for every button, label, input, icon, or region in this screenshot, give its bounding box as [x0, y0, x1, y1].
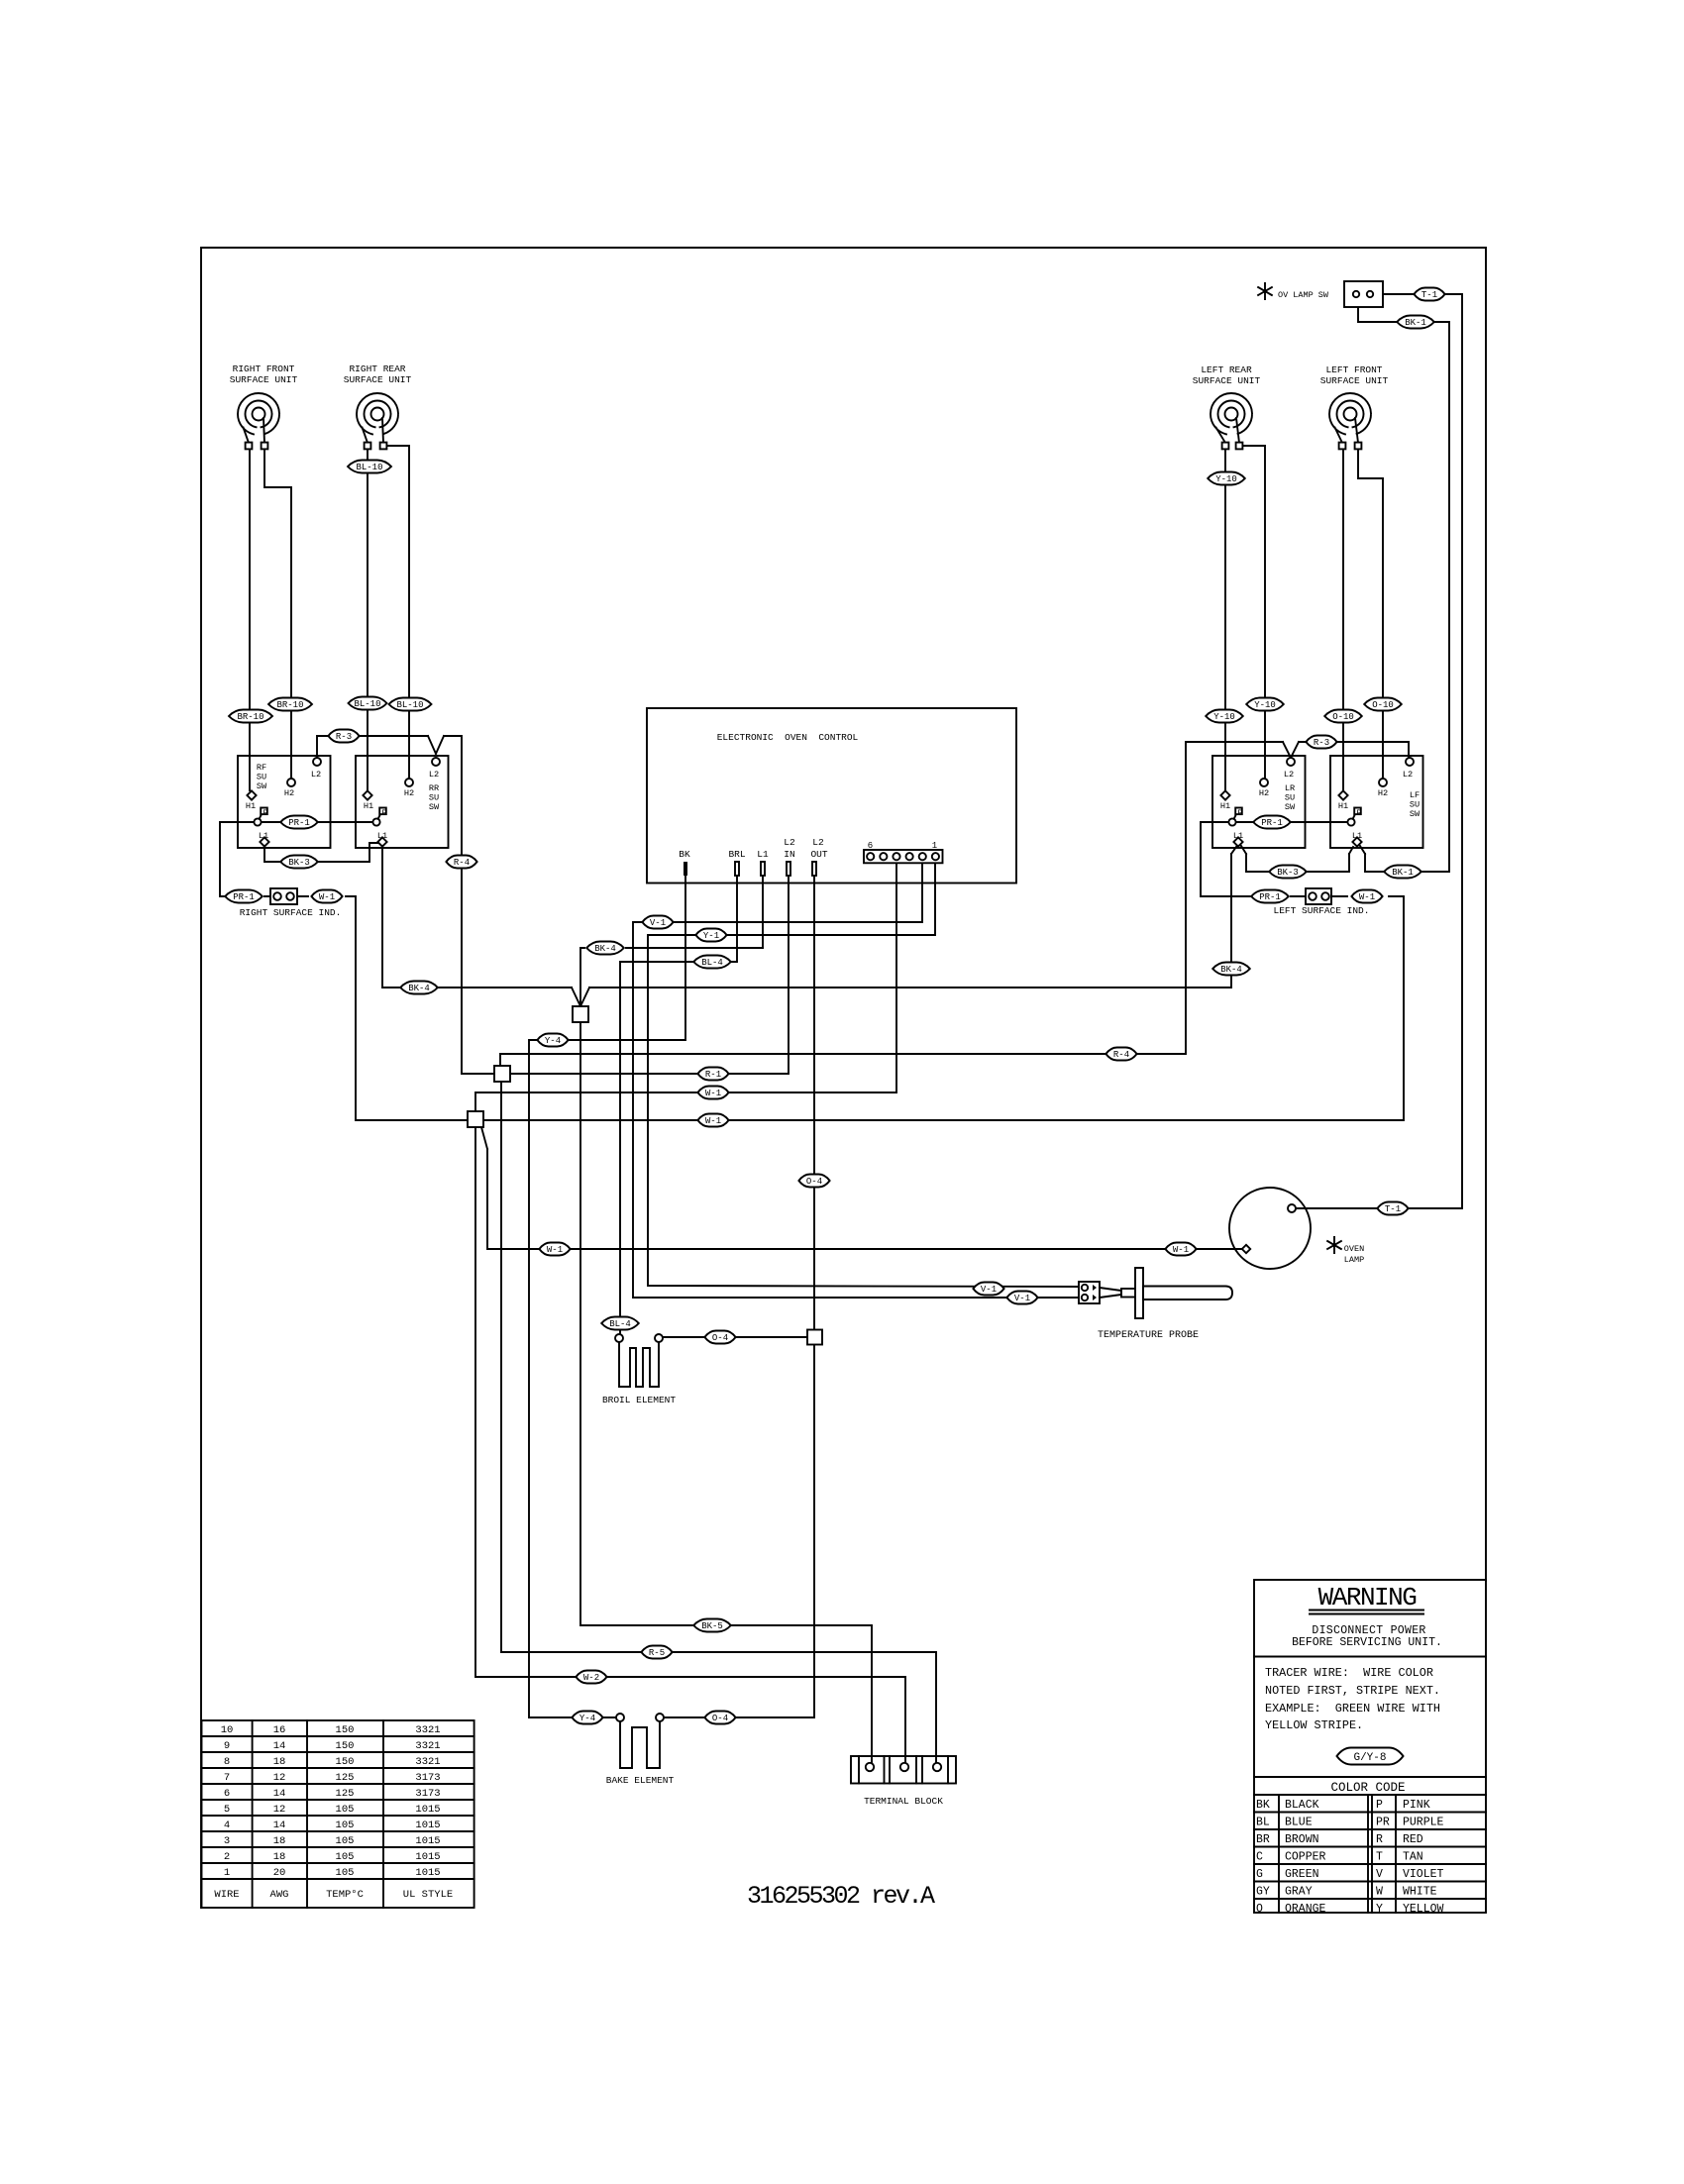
svg-text:W-1: W-1 [547, 1245, 563, 1255]
wire RF H1 wire BR-10 [249, 449, 251, 790]
svg-text:2: 2 [224, 1851, 230, 1863]
svg-text:T-1: T-1 [1421, 290, 1437, 300]
svg-text:105: 105 [336, 1851, 355, 1863]
svg-text:L1: L1 [259, 831, 268, 841]
broil element [615, 1334, 663, 1387]
svg-text:L2: L2 [784, 837, 795, 848]
RR switch pin H2 [405, 779, 413, 786]
svg-text:R-4: R-4 [1113, 1050, 1129, 1060]
svg-text:L2: L2 [429, 770, 439, 780]
surface unit coil LF [1329, 393, 1371, 449]
terminal block [851, 1756, 956, 1784]
wire label W-1 #4 [1165, 1243, 1196, 1256]
svg-text:BK: BK [1256, 1799, 1270, 1812]
svg-text:L1: L1 [1233, 831, 1243, 841]
wire label BK-1 lower [1384, 866, 1421, 879]
oven lamp circle [1229, 1188, 1311, 1269]
oven lamp pin T-1 [1288, 1204, 1296, 1212]
wire label BL-4 #1 [693, 956, 731, 969]
svg-text:Y-10: Y-10 [1213, 712, 1235, 722]
LF switch pin H1 [1338, 790, 1347, 799]
wire label BL-10 #1 [348, 461, 391, 473]
svg-text:O: O [1256, 1903, 1263, 1916]
wire PR-1 net right [1201, 822, 1347, 896]
svg-text:RR: RR [429, 783, 439, 793]
svg-text:105: 105 [336, 1804, 355, 1816]
svg-text:RIGHT FRONT: RIGHT FRONT [233, 364, 295, 374]
EOC connector circle 2 [919, 853, 926, 860]
svg-text:L2: L2 [1403, 770, 1413, 780]
svg-text:V-1: V-1 [981, 1285, 997, 1295]
RR pin labels [364, 770, 439, 841]
wire RF H2 wire BR-10 [264, 449, 291, 779]
svg-text:BAKE ELEMENT: BAKE ELEMENT [606, 1775, 675, 1786]
svg-text:1: 1 [932, 841, 937, 851]
terminal block pin 2 [900, 1763, 908, 1771]
wire label Y-4 #2 [572, 1712, 602, 1724]
svg-text:W-2: W-2 [583, 1673, 599, 1683]
EOC connector circle 3 [906, 853, 913, 860]
svg-text:NOTED FIRST, STRIPE NEXT.: NOTED FIRST, STRIPE NEXT. [1265, 1684, 1440, 1698]
RF switch pin P [254, 808, 266, 826]
svg-text:O-4: O-4 [712, 1714, 728, 1723]
svg-text:Y-4: Y-4 [545, 1036, 561, 1046]
svg-text:14: 14 [273, 1740, 286, 1752]
svg-text:SU: SU [429, 793, 439, 803]
svg-text:R: R [1376, 1833, 1383, 1846]
svg-text:1: 1 [224, 1867, 230, 1879]
svg-text:BK-4: BK-4 [594, 944, 616, 954]
wire label W-1 #3 [539, 1243, 570, 1256]
svg-text:BK-4: BK-4 [408, 984, 430, 993]
svg-text:BK-3: BK-3 [1277, 868, 1299, 878]
svg-text:BLUE: BLUE [1285, 1817, 1313, 1829]
wire label Y-10 #1 [1208, 472, 1245, 485]
svg-text:WIRE: WIRE [214, 1889, 239, 1901]
wire label R-1 [697, 1068, 728, 1081]
svg-text:SURFACE UNIT: SURFACE UNIT [344, 374, 412, 385]
wire label O-4 #2 [704, 1331, 735, 1344]
svg-text:Y-1: Y-1 [703, 931, 719, 941]
svg-text:G/Y-8: G/Y-8 [1353, 1752, 1386, 1764]
RF switch pin H1 [247, 790, 256, 799]
wire EOC L1 pin lead [762, 876, 764, 948]
LF SU SW designator [1410, 790, 1421, 819]
wire gauge table [202, 1720, 474, 1908]
wire label BK-3 left [280, 856, 318, 869]
svg-text:1015: 1015 [415, 1835, 440, 1847]
svg-text:BR: BR [1256, 1833, 1270, 1846]
wire BK-1 net (LF L1 to oven lamp switch) [1358, 307, 1449, 872]
svg-text:L1: L1 [1352, 831, 1362, 841]
RF switch pin L2 [313, 758, 321, 766]
svg-text:6: 6 [868, 841, 873, 851]
wire R-3 / R-4 net left [317, 736, 494, 1074]
svg-text:R-3: R-3 [336, 732, 352, 742]
terminal block pin 1 [866, 1763, 874, 1771]
wire BK-3 link RF L1 to RR L1 [264, 843, 378, 862]
junction block J3 [468, 1111, 483, 1127]
wire label BL-10 #2 [349, 697, 387, 710]
surface unit coil RR [357, 393, 398, 449]
svg-text:W: W [1376, 1886, 1383, 1899]
svg-text:125: 125 [336, 1788, 355, 1800]
svg-text:LEFT REAR: LEFT REAR [1201, 364, 1252, 375]
RR switch pin P [372, 808, 385, 826]
svg-text:LEFT FRONT: LEFT FRONT [1325, 364, 1382, 375]
svg-text:1015: 1015 [415, 1820, 440, 1831]
electronic oven control box [647, 708, 1016, 884]
RR switch pin L1 [377, 837, 386, 846]
svg-text:WARNING: WARNING [1318, 1583, 1417, 1612]
wire label BK-3 right [1269, 866, 1307, 879]
wire BL-4 net (EOC BRL to broil element) [620, 876, 737, 1333]
RR surface switch box [356, 756, 449, 848]
junction block J1 [573, 1006, 588, 1022]
svg-text:H2: H2 [1259, 788, 1269, 798]
svg-text:18: 18 [273, 1835, 286, 1847]
RF switch pin H2 [287, 779, 295, 786]
RF SU SW designator [257, 763, 267, 791]
wire label PR-1 right surface ind [225, 890, 263, 903]
svg-text:12: 12 [273, 1772, 286, 1784]
svg-text:PURPLE: PURPLE [1403, 1817, 1444, 1829]
junction block J2 [494, 1066, 510, 1082]
wire RR H2 wire BL-10 [386, 446, 409, 779]
right surface indicator circle 2 [286, 892, 294, 900]
svg-text:SW: SW [1285, 802, 1296, 812]
EOC connector strip [864, 850, 943, 863]
svg-text:H2: H2 [404, 788, 414, 798]
svg-text:IN: IN [784, 849, 794, 860]
svg-text:O-4: O-4 [712, 1333, 728, 1343]
svg-text:3173: 3173 [415, 1788, 440, 1800]
svg-text:BL-10: BL-10 [356, 463, 382, 472]
wire BK-4 stub at junction J1 [580, 948, 763, 1006]
svg-text:SW: SW [257, 781, 267, 791]
LR switch pin H1 [1220, 790, 1229, 799]
wire W-2 to terminal block [475, 1127, 905, 1763]
svg-text:GREEN: GREEN [1285, 1868, 1319, 1881]
wire label BR-10 #1 [229, 710, 272, 723]
wire label W-1 #1 [697, 1087, 728, 1099]
LR surface switch box [1212, 756, 1306, 848]
svg-text:OV LAMP SW: OV LAMP SW [1278, 290, 1329, 300]
LR switch pin H2 [1260, 779, 1268, 786]
svg-text:1015: 1015 [415, 1867, 440, 1879]
svg-text:L2: L2 [812, 837, 824, 848]
svg-text:Y-4: Y-4 [579, 1714, 595, 1723]
svg-text:V: V [1376, 1868, 1383, 1881]
svg-text:P: P [263, 808, 267, 818]
wire LR H2 wire Y-10 [1243, 446, 1265, 779]
svg-text:PINK: PINK [1403, 1799, 1430, 1812]
wire Y-1 / V-1 net (pin 6 to probe) [648, 861, 1079, 1287]
svg-text:150: 150 [336, 1740, 355, 1752]
svg-text:SU: SU [257, 773, 266, 782]
wire label BK-4 #2 [400, 982, 438, 994]
svg-text:SU: SU [1410, 800, 1420, 810]
svg-text:SURFACE UNIT: SURFACE UNIT [230, 374, 298, 385]
svg-text:18: 18 [273, 1756, 286, 1768]
svg-text:RED: RED [1403, 1833, 1423, 1846]
EOC connector circle 4 [893, 853, 899, 860]
bake element [616, 1714, 664, 1768]
svg-text:BRL: BRL [728, 849, 745, 860]
svg-text:7: 7 [224, 1772, 230, 1784]
svg-text:P: P [1376, 1799, 1383, 1812]
wire BK-3 link LR L1 to LF L1 [1241, 846, 1353, 872]
wire label O-10 #2 [1364, 698, 1402, 711]
asterisk for oven lamp switch [1258, 283, 1272, 299]
svg-text:W-1: W-1 [1359, 892, 1375, 902]
svg-text:W-1: W-1 [319, 892, 335, 902]
wire label PR-1 right switch link [1253, 816, 1291, 829]
svg-text:SURFACE UNIT: SURFACE UNIT [1193, 375, 1261, 386]
svg-text:T: T [1376, 1851, 1383, 1864]
wire label V-1 #2 [973, 1283, 1003, 1296]
wire label BK-4 #3 [1212, 963, 1250, 976]
wire label BK-1 upper [1397, 316, 1434, 329]
svg-text:SURFACE UNIT: SURFACE UNIT [1320, 375, 1389, 386]
color code table [1254, 1781, 1486, 1916]
LR switch pin L1 [1233, 837, 1242, 846]
svg-text:3321: 3321 [415, 1740, 440, 1752]
svg-text:BK-5: BK-5 [701, 1621, 723, 1631]
svg-text:1015: 1015 [415, 1851, 440, 1863]
junction block J4 [807, 1330, 822, 1345]
RF pin labels [246, 770, 321, 841]
left surface indicator circle 2 [1321, 892, 1329, 900]
svg-text:PR-1: PR-1 [1259, 892, 1281, 902]
svg-text:RF: RF [257, 763, 266, 773]
svg-text:W-1: W-1 [705, 1116, 721, 1126]
wire label BL-10 #3 [389, 698, 432, 711]
page border frame [201, 248, 1486, 1908]
oven lamp switch pin B [1367, 291, 1373, 297]
svg-text:P: P [1356, 808, 1361, 818]
svg-text:PR-1: PR-1 [1261, 818, 1283, 828]
wire label R-4 left [446, 856, 476, 869]
wire label BL-4 #2 [601, 1317, 639, 1330]
wire O-4 link (broil element to junction J4) [663, 1336, 806, 1338]
wire label T-1 upper [1414, 288, 1444, 301]
svg-text:105: 105 [336, 1835, 355, 1847]
svg-text:105: 105 [336, 1820, 355, 1831]
LF switch pin L2 [1406, 758, 1414, 766]
oven lamp switch box [1344, 281, 1383, 307]
svg-text:EXAMPLE: GREEN WIRE WITH: EXAMPLE: GREEN WIRE WITH [1265, 1702, 1440, 1716]
svg-text:10: 10 [221, 1724, 234, 1736]
wire label R-4 long [1105, 1048, 1136, 1061]
svg-text:3: 3 [224, 1835, 230, 1847]
wire W-1 net (pin 3 to junction J3) [475, 861, 896, 1111]
warning and color code box [1254, 1580, 1486, 1913]
svg-text:L1: L1 [377, 831, 387, 841]
svg-text:RIGHT SURFACE IND.: RIGHT SURFACE IND. [240, 907, 342, 918]
LF switch pin P [1347, 808, 1360, 826]
svg-text:COLOR CODE: COLOR CODE [1330, 1781, 1405, 1795]
svg-text:TRACER WIRE: WIRE COLOR: TRACER WIRE: WIRE COLOR [1265, 1666, 1433, 1680]
wire label W-1 #2 [697, 1114, 728, 1127]
wire label R-5 [641, 1646, 672, 1659]
wire label PR-1 left switch link [280, 816, 318, 829]
svg-text:TAN: TAN [1403, 1851, 1423, 1864]
wire label W-1 right surface ind [311, 890, 342, 903]
svg-text:O-10: O-10 [1332, 712, 1354, 722]
EOC pin BRL [735, 862, 739, 876]
temperature probe body [1100, 1268, 1232, 1318]
LR pin labels [1220, 770, 1294, 841]
svg-text:BEFORE SERVICING UNIT.: BEFORE SERVICING UNIT. [1292, 1636, 1442, 1649]
svg-text:BLACK: BLACK [1285, 1799, 1319, 1812]
svg-text:O-4: O-4 [806, 1177, 822, 1187]
svg-text:LAMP: LAMP [1344, 1255, 1364, 1265]
svg-text:LF: LF [1410, 790, 1420, 800]
wire R-1 net (EOC L2 IN to junction J2) [510, 876, 789, 1074]
wire label BK-5 [693, 1619, 731, 1632]
svg-text:VIOLET: VIOLET [1403, 1868, 1444, 1881]
svg-text:BL-4: BL-4 [701, 958, 723, 968]
svg-text:W-1: W-1 [705, 1089, 721, 1098]
svg-text:OVEN: OVEN [1344, 1244, 1364, 1254]
wire label G/Y-8 example [1337, 1748, 1404, 1765]
LF switch pin L1 [1352, 837, 1361, 846]
wire Y-4 net (EOC BK to bake element) [529, 876, 685, 1717]
svg-text:BR-10: BR-10 [237, 712, 263, 722]
wire label Y-1 [695, 929, 726, 942]
svg-text:8: 8 [224, 1756, 230, 1768]
wire label V-1 #1 [642, 916, 673, 929]
svg-text:C: C [1256, 1851, 1263, 1864]
svg-text:O-10: O-10 [1372, 700, 1394, 710]
svg-text:L2: L2 [1284, 770, 1294, 780]
svg-text:G: G [1256, 1868, 1263, 1881]
RR SU SW designator [429, 783, 440, 812]
EOC connector circle 6 [867, 853, 874, 860]
LR switch pin P [1228, 808, 1241, 826]
LF surface switch box [1330, 756, 1423, 848]
svg-text:BL-10: BL-10 [354, 699, 380, 709]
LF switch pin H2 [1379, 779, 1387, 786]
wire BK-5 to terminal block [580, 1022, 872, 1763]
right surface indicator circle 1 [273, 892, 281, 900]
svg-text:14: 14 [273, 1820, 286, 1831]
EOC pin L2 IN [787, 862, 790, 876]
svg-text:3173: 3173 [415, 1772, 440, 1784]
svg-text:Y-10: Y-10 [1215, 474, 1237, 484]
svg-text:BR-10: BR-10 [276, 700, 303, 710]
svg-text:20: 20 [273, 1867, 286, 1879]
left surface indicator circle 1 [1309, 892, 1316, 900]
svg-text:125: 125 [336, 1772, 355, 1784]
svg-text:L1: L1 [757, 849, 769, 860]
svg-text:YELLOW STRIPE.: YELLOW STRIPE. [1265, 1718, 1363, 1732]
svg-text:R-4: R-4 [454, 858, 470, 868]
wire label Y-10 #2 [1206, 710, 1243, 723]
wire label O-4 #1 [798, 1175, 829, 1188]
svg-text:UL STYLE: UL STYLE [403, 1889, 453, 1901]
wire label T-1 lower [1377, 1202, 1408, 1215]
wire BK-4 net [382, 847, 1236, 1006]
svg-text:TERMINAL BLOCK: TERMINAL BLOCK [864, 1796, 943, 1807]
svg-text:LR: LR [1285, 783, 1295, 793]
RR switch pin L2 [432, 758, 440, 766]
svg-text:T-1: T-1 [1385, 1204, 1401, 1214]
wire label O-4 #3 [704, 1712, 735, 1724]
svg-text:PR: PR [1376, 1817, 1390, 1829]
wire W-1 net (junction J3 to oven lamp) [481, 1127, 1242, 1249]
svg-text:P: P [381, 808, 386, 818]
svg-text:YELLOW: YELLOW [1403, 1903, 1444, 1916]
svg-text:COPPER: COPPER [1285, 1851, 1326, 1864]
wire T-1 net (lamp switch to oven lamp) [1296, 294, 1462, 1208]
svg-text:R-5: R-5 [649, 1648, 665, 1658]
LF pin labels [1338, 770, 1413, 841]
svg-text:R-1: R-1 [705, 1070, 721, 1080]
svg-text:H1: H1 [246, 801, 256, 811]
svg-text:14: 14 [273, 1788, 286, 1800]
temperature probe connector circle 1 [1082, 1285, 1088, 1291]
right surface indicator box [270, 888, 297, 904]
svg-text:Y-10: Y-10 [1254, 700, 1276, 710]
EOC connector circle 5 [880, 853, 887, 860]
surface unit coil LR [1210, 393, 1252, 449]
wire label V-1 #3 [1006, 1292, 1037, 1304]
svg-text:PR-1: PR-1 [288, 818, 310, 828]
svg-text:PR-1: PR-1 [233, 892, 255, 902]
svg-text:BK-4: BK-4 [1220, 965, 1242, 975]
svg-text:ELECTRONIC OVEN CONTROL: ELECTRONIC OVEN CONTROL [717, 732, 859, 743]
svg-text:BROIL ELEMENT: BROIL ELEMENT [602, 1395, 676, 1405]
temperature probe connector box [1079, 1282, 1100, 1303]
temperature probe connector arrows [1093, 1285, 1097, 1300]
wire label BK-4 #1 [586, 942, 624, 955]
svg-text:ORANGE: ORANGE [1285, 1903, 1326, 1916]
wire R-4 / R-3 net right [500, 742, 1409, 1066]
wire R-5 to terminal block [501, 1082, 936, 1763]
svg-text:BK-1: BK-1 [1405, 318, 1426, 328]
svg-text:Y: Y [1376, 1903, 1383, 1916]
svg-text:18: 18 [273, 1851, 286, 1863]
wire W-1 net (indicator to indicator) [356, 896, 1404, 1120]
wire label Y-4 #1 [537, 1034, 568, 1047]
svg-text:OUT: OUT [810, 849, 827, 860]
left surface indicator box [1306, 888, 1331, 904]
wire LF H2 wire O-10 [1358, 449, 1383, 779]
svg-text:H1: H1 [1220, 801, 1230, 811]
svg-text:TEMPERATURE PROBE: TEMPERATURE PROBE [1098, 1330, 1199, 1341]
svg-text:BROWN: BROWN [1285, 1833, 1319, 1846]
svg-text:TEMP°C: TEMP°C [326, 1889, 364, 1901]
LR SU SW designator [1285, 783, 1296, 812]
svg-text:GY: GY [1256, 1886, 1270, 1899]
oven lamp pin W-1 [1242, 1245, 1250, 1253]
wire label Y-10 #3 [1246, 698, 1284, 711]
wire LF H1 wire O-10 [1342, 449, 1344, 790]
svg-text:V-1: V-1 [650, 918, 666, 928]
svg-text:BL-10: BL-10 [396, 700, 423, 710]
svg-text:150: 150 [336, 1756, 355, 1768]
svg-text:R-3: R-3 [1314, 738, 1329, 748]
svg-text:105: 105 [336, 1867, 355, 1879]
RR switch pin H1 [363, 790, 371, 799]
EOC connector circle 1 [932, 853, 939, 860]
surface unit coil RF [238, 393, 279, 449]
svg-text:H2: H2 [284, 788, 294, 798]
wire LR H1 wire Y-10 [1224, 449, 1226, 790]
wire label R-3 left [328, 730, 359, 743]
